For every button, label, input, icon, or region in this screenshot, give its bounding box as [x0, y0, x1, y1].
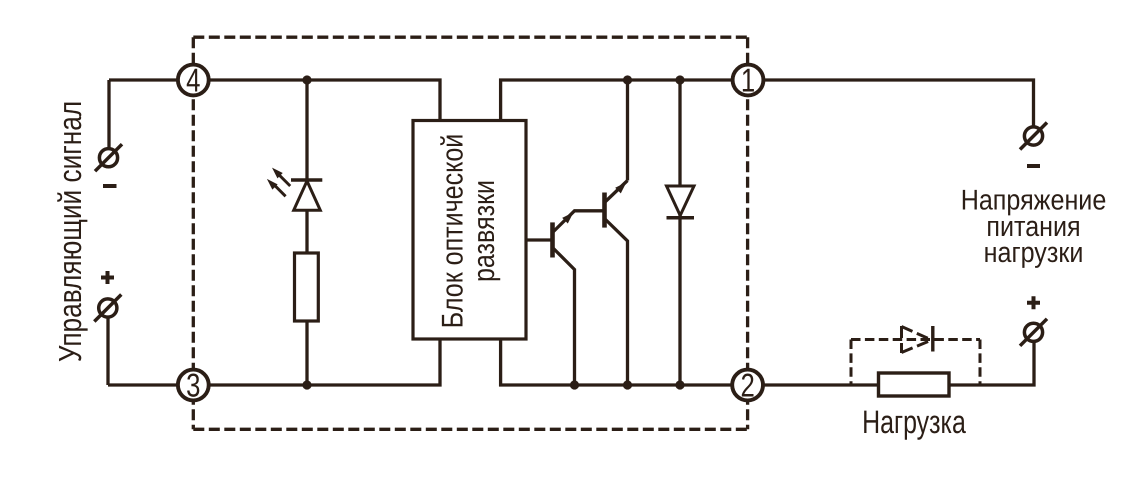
svg-text:Управляющий сигнал: Управляющий сигнал [52, 101, 88, 362]
svg-text:3: 3 [186, 366, 200, 403]
svg-text:Нагрузка: Нагрузка [862, 404, 966, 440]
svg-text:2: 2 [740, 366, 754, 403]
svg-text:4: 4 [186, 61, 200, 98]
svg-text:Блок оптической: Блок оптической [437, 134, 470, 329]
svg-text:1: 1 [741, 61, 755, 98]
svg-text:нагрузки: нагрузки [984, 237, 1084, 269]
svg-text:развязки: развязки [468, 180, 501, 282]
